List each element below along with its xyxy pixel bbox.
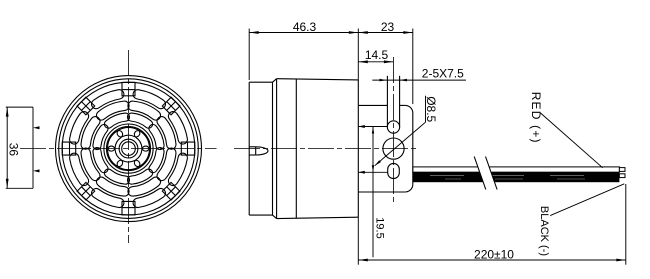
front view hub slots — [117, 128, 140, 137]
front view outer rim circle — [56, 76, 202, 222]
front view hub circle — [119, 139, 138, 158]
dim 36 dimension line — [6, 107, 8, 188]
ext line body left face up — [248, 29, 250, 81]
front view center hole — [122, 142, 136, 156]
middle hole circle dia 8.5 — [383, 138, 404, 159]
flange rear edge — [272, 82, 274, 215]
bracket bottom-right corner — [405, 184, 413, 192]
dim 36 bottom extension line — [6, 187, 33, 189]
svg-text:BLACK (-): BLACK (-) — [538, 206, 550, 256]
top slot center pointer line — [358, 126, 387, 128]
side view left face — [248, 82, 250, 215]
step top — [273, 79, 277, 83]
bottom slot — [388, 163, 400, 178]
dim 14.5 line — [358, 61, 393, 63]
label 2-5X7.5 leader — [372, 79, 466, 81]
top slot left side — [386, 76, 388, 127]
svg-text:36: 36 — [6, 143, 20, 157]
nipple dome — [256, 147, 268, 155]
body bottom edge — [277, 217, 359, 218]
top slot circle — [387, 121, 399, 133]
step bottom — [273, 215, 277, 219]
black wire highlight streaks — [430, 174, 600, 176]
bracket top edge right of slot — [400, 104, 406, 106]
front view inner rim circle — [59, 79, 199, 219]
body front ring line — [276, 79, 278, 219]
svg-text:14.5: 14.5 — [365, 48, 389, 62]
bracket top edge left of slot — [358, 104, 387, 106]
body rear face — [357, 80, 359, 217]
wire end terminal top — [619, 168, 625, 172]
label BLACK leader — [550, 184, 624, 216]
wire end terminal bottom — [619, 174, 625, 178]
wire break slash 2 — [486, 157, 498, 190]
ext line wire end down — [625, 184, 627, 265]
bracket top-right corner — [405, 105, 413, 113]
svg-text:46.3: 46.3 — [293, 20, 317, 34]
label RED leader — [541, 113, 603, 168]
front view axis tabs — [181, 142, 194, 155]
hole pointer arrows front — [33, 126, 40, 129]
ext line bracket right up — [412, 29, 414, 105]
dim 19.5 line — [372, 127, 374, 258]
bottom slot center pointer line — [358, 171, 387, 173]
nipple bottom — [249, 154, 256, 156]
dim 23 line — [358, 32, 413, 34]
label dia 8.5 leader — [375, 122, 426, 166]
svg-text:23: 23 — [381, 20, 395, 34]
side view centerline — [234, 148, 419, 150]
top slot right side — [399, 76, 401, 127]
flange top edge — [249, 81, 272, 83]
body top edge — [277, 79, 359, 80]
front view horizontal centerline — [20, 148, 217, 150]
front view diagonal boxes — [162, 97, 180, 115]
nipple top — [249, 146, 256, 148]
ext line body rear face up and down to 220 dim — [357, 29, 359, 80]
svg-text:19.5: 19.5 — [374, 217, 386, 238]
black wire — [413, 172, 620, 182]
nipple base line — [255, 147, 257, 155]
front view grille boundary circle — [62, 82, 195, 215]
front view grille arc slots — [149, 124, 164, 149]
flange bottom edge — [249, 214, 272, 216]
dim 220 line — [358, 259, 626, 261]
wire break slash 1 — [474, 157, 486, 190]
bracket right edge — [412, 113, 414, 184]
svg-text:Ø8.5: Ø8.5 — [424, 96, 438, 122]
dim 36 top extension line — [6, 106, 33, 108]
dim 46.3 line — [249, 32, 358, 34]
bracket holes centerline — [393, 57, 395, 205]
bracket bottom edge — [358, 191, 405, 193]
label dia 8.5 underline — [425, 96, 427, 122]
front view slot-ring outer circle — [104, 124, 153, 173]
body mid ring line — [295, 79, 297, 219]
svg-text:RED (+): RED (+) — [529, 92, 543, 144]
dim 36 arrows — [6, 107, 9, 117]
white wire — [413, 167, 620, 172]
svg-text:220±10: 220±10 — [474, 247, 514, 261]
front view slot-ring inner circle — [107, 127, 151, 171]
wire break gap — [474, 156, 497, 190]
svg-text:2-5X7.5: 2-5X7.5 — [422, 67, 464, 81]
front view vertical centerline — [128, 50, 130, 243]
hole-height pointer line front — [32, 107, 34, 188]
